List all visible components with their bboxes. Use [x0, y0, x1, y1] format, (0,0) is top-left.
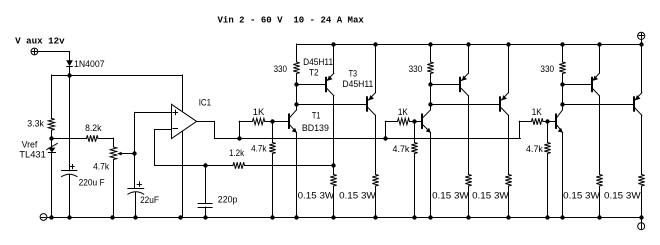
svg-text:1K: 1K: [253, 107, 265, 118]
svg-text:1.2k: 1.2k: [229, 148, 244, 159]
svg-text:0.15 3W: 0.15 3W: [472, 191, 509, 202]
svg-text:0.15 3W: 0.15 3W: [339, 191, 376, 202]
svg-text:3.3k: 3.3k: [27, 118, 44, 129]
svg-text:220p: 220p: [218, 195, 238, 206]
svg-text:330: 330: [540, 64, 554, 75]
svg-text:4.7k: 4.7k: [93, 162, 109, 173]
svg-text:4.7k: 4.7k: [251, 144, 267, 155]
svg-text:D45H11: D45H11: [342, 79, 373, 90]
svg-text:T1: T1: [312, 111, 321, 122]
svg-text:8.2k: 8.2k: [85, 123, 102, 134]
svg-text:T2: T2: [309, 67, 319, 78]
svg-text:V aux 12v: V aux 12v: [15, 36, 65, 47]
svg-text:220u F: 220u F: [79, 178, 105, 189]
svg-text:0.15 3W: 0.15 3W: [563, 191, 600, 202]
svg-text:0.15 3W: 0.15 3W: [298, 191, 335, 202]
svg-text:330: 330: [409, 64, 423, 75]
svg-text:0.15 3W: 0.15 3W: [432, 191, 469, 202]
svg-text:1N4007: 1N4007: [74, 59, 105, 70]
svg-text:1K: 1K: [532, 107, 543, 118]
svg-text:1K: 1K: [398, 107, 409, 118]
svg-text:4.7k: 4.7k: [393, 144, 410, 155]
svg-text:T3: T3: [349, 69, 358, 80]
svg-text:4.7k: 4.7k: [526, 144, 543, 155]
svg-text:TL431: TL431: [19, 149, 46, 160]
svg-text:BD139: BD139: [302, 123, 329, 134]
svg-text:330: 330: [274, 64, 287, 75]
svg-text:Vin 2 - 60 V 10 - 24 A Max: Vin 2 - 60 V 10 - 24 A Max: [218, 15, 365, 26]
svg-text:IC1: IC1: [199, 98, 211, 109]
svg-text:22uF: 22uF: [140, 195, 159, 206]
svg-text:0.15 3W: 0.15 3W: [604, 191, 641, 202]
